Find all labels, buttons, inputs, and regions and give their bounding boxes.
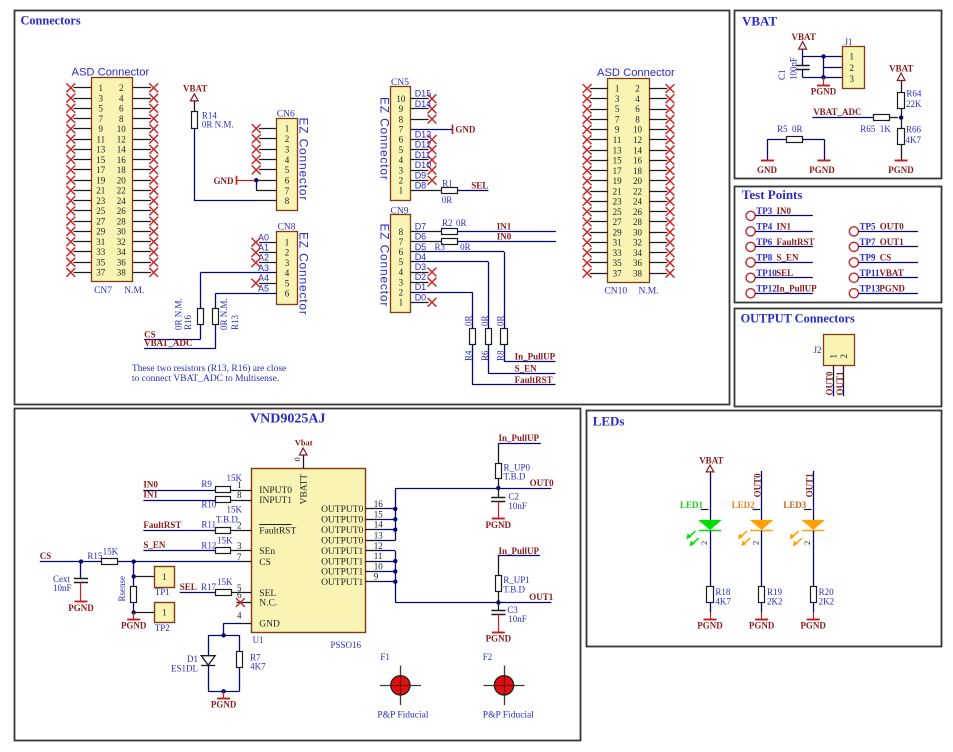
svg-text:TP3: TP3 [756,206,773,216]
svg-text:20: 20 [633,176,643,186]
svg-text:0R: 0R [460,242,471,252]
svg-text:N.M.: N.M. [124,286,144,296]
svg-text:R16: R16 [183,314,193,330]
svg-text:R65 1K: R65 1K [860,124,891,134]
svg-text:J1: J1 [845,37,853,47]
svg-text:OUTPUT1: OUTPUT1 [321,568,363,578]
svg-text:8: 8 [399,227,404,237]
svg-text:TP7: TP7 [860,237,877,247]
svg-text:PGND: PGND [697,620,723,630]
svg-text:R5 0R: R5 0R [777,124,803,134]
svg-text:D14: D14 [415,99,432,109]
svg-text:34: 34 [117,247,127,257]
svg-text:Connectors: Connectors [21,14,81,28]
svg-text:D9: D9 [415,170,427,180]
svg-text:INPUT0: INPUT0 [259,486,292,496]
svg-text:0R: 0R [456,218,467,228]
svg-text:22K: 22K [906,99,922,109]
svg-text:TP1: TP1 [155,587,170,597]
svg-text:R64: R64 [906,89,922,99]
svg-text:9: 9 [374,572,379,582]
svg-text:2K2: 2K2 [819,597,835,607]
svg-text:10nF: 10nF [508,614,527,624]
svg-text:2: 2 [635,84,640,94]
svg-text:14: 14 [117,145,127,155]
svg-text:7: 7 [615,114,620,124]
svg-text:8: 8 [119,114,124,124]
svg-text:PGND: PGND [888,165,914,175]
svg-text:INPUT1: INPUT1 [259,496,292,506]
svg-text:35: 35 [613,258,623,268]
svg-text:22: 22 [633,186,642,196]
svg-text:SEL: SEL [776,268,793,278]
svg-text:PGND: PGND [211,700,237,710]
svg-text:OUT1: OUT1 [804,473,814,498]
svg-text:1: 1 [828,354,838,359]
svg-text:R3: R3 [435,242,446,252]
svg-text:31: 31 [96,237,105,247]
svg-text:CN6: CN6 [277,110,295,120]
svg-text:GND: GND [455,125,476,135]
svg-text:3: 3 [99,93,104,103]
svg-text:22: 22 [117,186,126,196]
svg-text:100nF: 100nF [788,57,798,80]
svg-text:3: 3 [615,94,620,104]
svg-text:5: 5 [285,278,290,288]
svg-text:33: 33 [96,247,106,257]
svg-text:D4: D4 [415,252,427,262]
svg-text:OUTPUT1: OUTPUT1 [321,557,363,567]
svg-text:15: 15 [374,509,384,519]
svg-text:6: 6 [399,135,404,145]
svg-text:33: 33 [613,248,623,258]
svg-text:D15: D15 [415,89,432,99]
svg-text:A0: A0 [258,232,269,242]
svg-text:10: 10 [396,94,406,104]
svg-text:ASD Connector: ASD Connector [597,67,675,79]
svg-text:16: 16 [117,155,127,165]
svg-text:A1: A1 [258,243,269,253]
svg-text:N.M.: N.M. [639,287,659,297]
svg-text:11: 11 [613,135,622,145]
svg-text:TP11: TP11 [860,268,881,278]
svg-text:15K: 15K [103,546,119,556]
svg-text:2: 2 [399,287,404,297]
svg-text:R20: R20 [819,587,835,597]
svg-text:A4: A4 [258,273,269,283]
svg-text:OUTPUT0: OUTPUT0 [321,516,363,526]
svg-text:9: 9 [399,104,404,114]
svg-text:T.B.D: T.B.D [504,471,526,481]
svg-text:32: 32 [633,238,642,248]
svg-text:D13: D13 [415,130,432,140]
svg-text:TP9: TP9 [860,252,877,262]
svg-text:TP8: TP8 [756,252,773,262]
svg-text:OUTPUT0: OUTPUT0 [321,537,363,547]
svg-text:6: 6 [237,590,242,600]
svg-text:FaultRST: FaultRST [143,520,181,530]
svg-text:R18: R18 [715,587,731,597]
svg-text:R66: R66 [906,125,922,135]
svg-text:25: 25 [613,207,623,217]
svg-text:17: 17 [96,165,106,175]
svg-text:Rsense: Rsense [117,576,127,602]
svg-text:FaultRST: FaultRST [515,375,553,385]
svg-text:S_EN: S_EN [777,252,800,262]
svg-text:OUTPUT Connectors: OUTPUT Connectors [741,311,855,325]
svg-text:21: 21 [613,186,622,196]
svg-text:GND: GND [214,176,235,186]
svg-text:8: 8 [635,114,640,124]
svg-text:4: 4 [119,93,124,103]
svg-text:5: 5 [399,257,404,267]
svg-text:38: 38 [117,268,127,278]
svg-text:F2: F2 [483,652,493,662]
svg-text:R1: R1 [442,178,453,188]
svg-text:P&P Fiducial: P&P Fiducial [483,711,534,721]
svg-text:10: 10 [633,125,643,135]
svg-text:D1: D1 [187,654,198,664]
svg-text:D10: D10 [415,160,432,170]
svg-text:1: 1 [99,83,104,93]
svg-text:T.B.D: T.B.D [503,584,525,594]
svg-text:15: 15 [613,156,623,166]
svg-text:D0: D0 [415,292,427,302]
svg-text:2K2: 2K2 [767,597,783,607]
svg-text:GND: GND [259,619,280,629]
svg-text:2: 2 [285,134,290,144]
svg-text:7: 7 [99,114,104,124]
svg-text:3: 3 [237,541,242,551]
svg-text:10nF: 10nF [53,583,72,593]
svg-text:TP13: TP13 [860,283,881,293]
svg-text:12: 12 [374,541,383,551]
svg-text:2: 2 [802,541,812,545]
svg-text:D2: D2 [415,272,427,282]
svg-text:VND9025AJ: VND9025AJ [250,412,325,427]
svg-text:D12: D12 [415,140,432,150]
svg-text:FaultRST: FaultRST [259,527,296,537]
svg-text:OUT1: OUT1 [835,371,845,396]
svg-text:C2: C2 [508,491,519,501]
svg-text:In_PullUP: In_PullUP [776,283,817,293]
svg-text:OUT0: OUT0 [530,478,555,488]
svg-text:These two resistors (R13, R16): These two resistors (R13, R16) are close [132,363,286,374]
svg-text:R9: R9 [201,479,212,489]
svg-text:EZ Connector: EZ Connector [377,224,391,308]
svg-text:8: 8 [399,114,404,124]
svg-text:TP12: TP12 [756,283,777,293]
svg-text:19: 19 [613,176,623,186]
svg-text:VBAT: VBAT [879,268,903,278]
svg-text:13: 13 [613,145,623,155]
svg-text:OUTPUT1: OUTPUT1 [321,578,363,588]
svg-text:11: 11 [96,134,105,144]
svg-text:OUTPUT1: OUTPUT1 [321,547,363,557]
svg-text:1: 1 [850,52,855,62]
svg-text:6: 6 [119,104,124,114]
svg-text:10: 10 [374,561,384,571]
svg-text:F1: F1 [380,652,390,662]
svg-text:PGND: PGND [800,620,826,630]
svg-text:FaultRST: FaultRST [777,237,815,247]
svg-text:CS: CS [259,558,271,568]
svg-text:9: 9 [615,125,620,135]
svg-text:IN1: IN1 [777,221,792,231]
svg-text:R12: R12 [201,540,216,550]
svg-text:S_EN: S_EN [143,540,166,550]
svg-text:to connect VBAT_ADC to Multise: to connect VBAT_ADC to Multisense. [132,374,279,384]
svg-text:PGND: PGND [68,603,94,613]
svg-text:28: 28 [117,216,127,226]
svg-text:16: 16 [633,156,643,166]
svg-text:4: 4 [285,268,290,278]
svg-text:PGND: PGND [486,520,512,530]
svg-text:0R N.M.: 0R N.M. [202,119,234,129]
svg-text:VBAT: VBAT [699,456,723,466]
svg-text:23: 23 [613,197,623,207]
svg-text:R2: R2 [442,218,453,228]
svg-text:CS: CS [880,252,892,262]
svg-text:TP10: TP10 [756,268,777,278]
svg-text:35: 35 [96,257,106,267]
svg-text:IN0: IN0 [497,232,512,242]
svg-text:SEL: SEL [259,589,276,599]
svg-text:15K: 15K [217,577,233,587]
svg-text:EZ Connector: EZ Connector [296,118,310,202]
svg-text:6: 6 [635,104,640,114]
svg-text:GND: GND [757,165,778,175]
svg-text:OUTPUT0: OUTPUT0 [321,505,363,515]
svg-text:CN5: CN5 [391,78,409,88]
svg-text:N.C.: N.C. [259,599,277,609]
svg-text:21: 21 [96,186,105,196]
svg-text:Vbat: Vbat [295,438,313,448]
svg-text:15: 15 [96,155,106,165]
svg-text:T.B.D.: T.B.D. [216,515,240,525]
svg-text:29: 29 [613,227,623,237]
svg-text:D7: D7 [415,222,427,232]
svg-text:CN8: CN8 [278,222,296,232]
svg-text:2: 2 [750,541,760,545]
svg-text:R17: R17 [201,582,217,592]
svg-text:2: 2 [839,354,849,359]
svg-text:0R: 0R [480,315,490,326]
svg-text:PSSO16: PSSO16 [331,640,362,650]
svg-text:6: 6 [285,175,290,185]
svg-text:14: 14 [374,520,384,530]
svg-text:VBAT: VBAT [792,32,816,42]
svg-text:4: 4 [399,267,404,277]
svg-text:12: 12 [117,134,126,144]
svg-text:R11: R11 [201,520,216,530]
svg-text:18: 18 [117,165,127,175]
svg-text:27: 27 [96,216,106,226]
svg-text:PGND: PGND [879,283,905,293]
svg-text:2: 2 [399,176,404,186]
svg-text:2: 2 [285,248,290,258]
svg-text:SEL: SEL [180,582,197,592]
svg-text:19: 19 [96,175,106,185]
svg-text:26: 26 [633,207,643,217]
svg-text:36: 36 [117,257,127,267]
svg-text:30: 30 [633,227,643,237]
svg-text:OUTPUT0: OUTPUT0 [321,526,363,536]
svg-text:0R N.M.: 0R N.M. [174,298,184,330]
svg-text:IN1: IN1 [497,222,512,232]
svg-text:13: 13 [96,145,106,155]
svg-text:37: 37 [96,268,106,278]
svg-text:4: 4 [635,94,640,104]
svg-text:37: 37 [613,268,623,278]
svg-text:1: 1 [615,84,620,94]
svg-text:5: 5 [615,104,620,114]
svg-text:17: 17 [613,166,623,176]
svg-text:PGND: PGND [749,620,775,630]
svg-text:OUT0: OUT0 [825,371,835,396]
svg-text:1: 1 [162,607,167,617]
svg-text:1: 1 [285,124,290,134]
svg-text:PGND: PGND [809,165,835,175]
svg-text:D6: D6 [415,232,427,242]
svg-text:1: 1 [399,186,404,196]
svg-text:14: 14 [633,145,643,155]
svg-text:TP6: TP6 [756,237,773,247]
svg-text:28: 28 [633,217,643,227]
svg-text:D5: D5 [415,242,427,252]
svg-text:IN0: IN0 [777,206,792,216]
svg-text:R13: R13 [230,314,240,330]
svg-text:30: 30 [117,227,127,237]
svg-text:0R: 0R [495,315,505,326]
svg-text:5: 5 [399,145,404,155]
svg-text:In_PullUP: In_PullUP [515,352,556,362]
svg-text:D3: D3 [415,262,427,272]
svg-text:29: 29 [96,227,106,237]
svg-text:20: 20 [117,175,127,185]
svg-text:0R: 0R [442,195,453,205]
svg-text:D8: D8 [415,181,427,191]
svg-text:LED1: LED1 [680,500,704,510]
svg-text:CN7: CN7 [94,286,112,296]
svg-text:4K7: 4K7 [715,597,731,607]
svg-text:VBAT: VBAT [889,64,913,74]
svg-text:VBATT: VBATT [299,474,309,505]
svg-text:7: 7 [399,125,404,135]
svg-text:A2: A2 [258,253,269,263]
svg-text:SEL: SEL [471,181,488,191]
svg-text:TP2: TP2 [155,623,170,633]
svg-text:1: 1 [162,572,167,582]
svg-text:OUT0: OUT0 [880,221,905,231]
svg-text:EZ Connector: EZ Connector [377,97,391,181]
svg-text:PGND: PGND [121,621,147,631]
svg-text:EZ Connector: EZ Connector [296,232,310,316]
svg-text:Test Points: Test Points [742,187,803,202]
svg-text:D1: D1 [415,282,427,292]
svg-text:SEn: SEn [259,547,275,557]
svg-text:S_EN: S_EN [515,364,538,374]
svg-text:24: 24 [633,197,643,207]
svg-text:3: 3 [285,144,290,154]
svg-text:ASD Connector: ASD Connector [72,67,150,79]
svg-text:4K7: 4K7 [250,661,266,671]
svg-text:15K: 15K [227,473,243,483]
svg-text:VBAT: VBAT [742,14,777,29]
svg-text:U1: U1 [253,635,264,645]
svg-text:CN9: CN9 [391,207,409,217]
svg-text:2: 2 [850,63,855,73]
svg-text:CS: CS [40,551,52,561]
svg-text:38: 38 [633,268,643,278]
svg-text:12: 12 [633,135,642,145]
svg-text:C1: C1 [777,69,787,80]
svg-text:4: 4 [237,611,242,621]
svg-text:1: 1 [399,298,404,308]
svg-text:8: 8 [285,196,290,206]
svg-text:3: 3 [399,277,404,287]
svg-text:4: 4 [399,155,404,165]
svg-text:9: 9 [99,124,104,134]
svg-text:0: 0 [292,457,302,461]
svg-text:1: 1 [285,238,290,248]
svg-text:In_PullUP: In_PullUP [499,546,540,556]
svg-text:R15: R15 [87,551,103,561]
svg-text:6: 6 [285,289,290,299]
svg-text:3: 3 [850,74,855,84]
svg-text:IN0: IN0 [143,479,158,489]
svg-text:VBAT_ADC: VBAT_ADC [813,107,861,117]
svg-text:23: 23 [96,196,106,206]
svg-text:R_UP1: R_UP1 [503,575,530,585]
svg-text:0R N.M.: 0R N.M. [219,298,229,330]
svg-text:32: 32 [117,237,126,247]
svg-text:LEDs: LEDs [593,414,625,429]
svg-text:27: 27 [613,217,623,227]
svg-text:2: 2 [699,541,709,545]
svg-text:18: 18 [633,166,643,176]
svg-text:TP5: TP5 [860,221,877,231]
svg-text:TP4: TP4 [756,221,773,231]
svg-text:25: 25 [96,206,106,216]
svg-text:7: 7 [399,237,404,247]
svg-text:PGND: PGND [486,634,512,644]
svg-text:6: 6 [399,247,404,257]
svg-text:ES1DL: ES1DL [171,664,198,674]
svg-text:A3: A3 [258,263,269,273]
svg-text:15K: 15K [217,535,233,545]
svg-text:D11: D11 [415,150,431,160]
svg-text:36: 36 [633,258,643,268]
svg-text:R10: R10 [201,499,217,509]
svg-text:7: 7 [237,552,242,562]
svg-text:3: 3 [399,165,404,175]
svg-text:OUT1: OUT1 [880,237,905,247]
svg-text:3: 3 [285,258,290,268]
svg-text:5: 5 [285,165,290,175]
svg-text:16: 16 [374,499,384,509]
svg-text:10: 10 [117,124,127,134]
svg-text:7: 7 [285,186,290,196]
svg-text:VBAT: VBAT [183,84,207,94]
svg-text:A5: A5 [258,283,269,293]
svg-text:34: 34 [633,248,643,258]
svg-text:4: 4 [285,155,290,165]
svg-text:P&P Fiducial: P&P Fiducial [377,711,428,721]
svg-text:2: 2 [119,83,124,93]
svg-text:IN1: IN1 [143,489,158,499]
svg-text:8: 8 [237,490,242,500]
